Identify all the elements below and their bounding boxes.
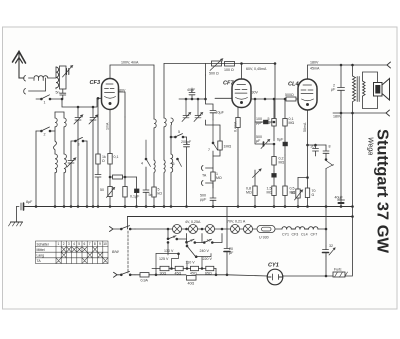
resistor 1M column x220 <box>206 120 223 156</box>
selector taps <box>156 252 211 269</box>
svg-text:3: 3 <box>78 143 80 147</box>
cap on rectifier line x326 <box>323 248 336 255</box>
label CY1 tube <box>268 263 279 269</box>
antenna <box>13 52 26 79</box>
label 0,5M <box>290 187 296 195</box>
output capacitor 2uF <box>338 64 345 113</box>
svg-text:5n: 5n <box>149 193 153 197</box>
antenna plug bottom (earth tap) <box>24 78 46 94</box>
svg-text:Stuttgart 37 GW: Stuttgart 37 GW <box>374 129 391 253</box>
coupling cap 100pF row <box>254 98 274 124</box>
label 1mA rotated <box>106 122 110 130</box>
label 70ohm <box>312 189 316 197</box>
drop x154 from 100V line <box>153 65 155 119</box>
svg-text:5n: 5n <box>56 91 60 95</box>
svg-text:100 Ω: 100 Ω <box>224 68 234 72</box>
heater chain coils CY1 CF3 CL4 CF7 <box>282 227 327 230</box>
drop from B+ at x164 <box>163 64 165 119</box>
svg-text:MΩ: MΩ <box>279 161 285 165</box>
svg-text:Fu/E: Fu/E <box>334 268 342 272</box>
2uF rail down to bus <box>340 113 342 202</box>
label 500uF <box>256 135 262 143</box>
cathode resistor 70ohm column x307 <box>305 188 309 207</box>
label 1M at x213 <box>216 172 222 180</box>
label 50mA rotated <box>303 122 307 132</box>
label 5n <box>56 91 60 95</box>
resistor 100ohm on B+ <box>225 62 235 67</box>
label 2uF <box>331 84 336 92</box>
label 0,1uF <box>130 195 140 199</box>
svg-text:6: 6 <box>173 162 175 166</box>
svg-text:500 Ω: 500 Ω <box>209 72 219 76</box>
trimmer arrow near x255 <box>253 169 262 178</box>
switch 4 and cap column x146 <box>143 140 151 207</box>
wave switch contact 1 <box>36 95 62 100</box>
svg-text:80V: 80V <box>119 89 126 93</box>
svg-text:9: 9 <box>191 239 193 243</box>
CF7 cathode <box>237 108 239 118</box>
svg-text:7: 7 <box>208 148 210 152</box>
title Wega <box>367 137 374 155</box>
antenna coupling coil <box>34 76 48 81</box>
transformer core box <box>60 66 67 89</box>
antenna plug top <box>24 76 33 82</box>
series resistor 40ohm <box>187 276 197 281</box>
dial lamp U930 <box>257 226 275 233</box>
B+ rail down to fuse <box>352 113 354 276</box>
svg-text:40pF: 40pF <box>187 88 196 92</box>
main chassis bus <box>24 206 353 208</box>
lamp 1 <box>173 225 182 234</box>
label 8 switch <box>329 145 331 149</box>
heater bus drop to switch <box>127 217 129 230</box>
cap 0,1uF column x137 <box>135 177 139 207</box>
svg-text:3: 3 <box>68 242 70 246</box>
label U930 <box>259 236 269 240</box>
speaker <box>363 72 390 109</box>
svg-text:B/W: B/W <box>112 250 119 254</box>
label 5k mid <box>158 188 163 196</box>
svg-text:0,9A: 0,9A <box>141 279 149 283</box>
lamp shorting switch 8 <box>167 229 186 240</box>
ground symbol <box>9 207 23 227</box>
label 1k <box>102 155 106 163</box>
label 0,1 <box>114 155 119 159</box>
electrolytic 8uF at bus end <box>17 203 24 210</box>
svg-text:32: 32 <box>329 244 333 248</box>
svg-text:0,4mA: 0,4mA <box>234 121 238 132</box>
cap 40pF and trimmers x192 <box>179 88 206 100</box>
switch 8 contact <box>323 145 334 276</box>
svg-text:6: 6 <box>84 242 86 246</box>
resistor 0,5M column x285 <box>283 155 287 207</box>
label 20uF <box>229 247 234 255</box>
lamp 2 <box>189 225 198 234</box>
speaker terminal top <box>387 62 391 68</box>
IF transformer 2 windings x171 <box>171 118 173 207</box>
trimmer cap column x93 <box>89 106 98 206</box>
column x205 cap 10uF <box>205 75 225 120</box>
label CF7 <box>223 81 234 87</box>
oscillator coil column x55 <box>54 112 58 207</box>
label 180V return <box>333 115 342 119</box>
svg-text:180V: 180V <box>310 61 319 65</box>
tube CF3 <box>102 79 119 110</box>
label 0,9A <box>141 279 149 283</box>
svg-text:40Ω: 40Ω <box>188 281 195 285</box>
label 20 <box>311 145 315 149</box>
variable resistor 500ohm on B+ <box>206 59 223 75</box>
180V return line <box>333 112 386 114</box>
CF3 cathode lead <box>109 110 111 154</box>
table text <box>37 242 107 263</box>
drop x275 <box>274 63 276 118</box>
svg-text:45mA: 45mA <box>310 67 320 71</box>
svg-text:CL4: CL4 <box>301 233 308 237</box>
label 0,8M <box>246 187 252 195</box>
svg-text:180V: 180V <box>333 115 342 119</box>
lamp shorting switch 9 <box>186 234 202 244</box>
TA pickup terminals <box>201 166 213 189</box>
lamp 5 <box>244 225 253 234</box>
6uF cap column x285 at y144 <box>283 141 287 155</box>
speaker terminal bottom <box>386 110 390 116</box>
svg-text:CF7: CF7 <box>223 81 234 87</box>
label 200pF <box>181 140 192 144</box>
svg-text:50mA: 50mA <box>303 122 307 132</box>
trimmer cap column x71 <box>67 141 76 207</box>
label 40ohm <box>188 281 195 285</box>
antenna input transformer winding <box>56 67 59 89</box>
smoothing cap 20uF column x227 <box>224 207 230 275</box>
svg-text:TA: TA <box>202 174 207 178</box>
svg-text:4: 4 <box>73 242 75 246</box>
svg-text:1mA: 1mA <box>106 122 110 130</box>
label TA <box>202 174 207 178</box>
svg-text:Wega: Wega <box>367 137 374 155</box>
svg-text:50: 50 <box>100 188 104 192</box>
cap 5n under transformer <box>60 89 66 99</box>
label 100V,4mA <box>121 61 139 65</box>
svg-text:MΩ: MΩ <box>246 191 252 195</box>
label 5k <box>266 117 271 125</box>
selector labels <box>159 249 212 264</box>
svg-text:30Ω: 30Ω <box>160 271 167 275</box>
trimmer cap column x78 <box>74 106 83 206</box>
electrolytic 40uF on bus <box>338 196 345 207</box>
svg-text:1: 1 <box>44 101 46 105</box>
cathode resistor column x110 <box>107 153 115 207</box>
svg-text:5: 5 <box>178 130 180 134</box>
svg-text:8: 8 <box>173 235 175 239</box>
svg-text:70V, 0,21 A: 70V, 0,21 A <box>227 220 246 224</box>
switch 7 and resistor 1M column x213 <box>210 120 218 207</box>
svg-text:500Ω: 500Ω <box>285 93 294 97</box>
heater supply bus <box>128 216 354 218</box>
voltage selector lever <box>167 242 195 257</box>
output transformer <box>352 64 366 113</box>
label CF3 <box>90 80 101 86</box>
mains fuse 0,9A <box>135 273 156 277</box>
500pF trimmer row y144 <box>255 122 275 149</box>
svg-text:1: 1 <box>58 242 60 246</box>
svg-text:Lang: Lang <box>37 254 45 258</box>
label 500ohm <box>209 72 219 76</box>
label 100ohm <box>224 68 234 72</box>
svg-text:240 V: 240 V <box>200 249 210 253</box>
svg-text:8: 8 <box>94 242 96 246</box>
svg-text:125 V: 125 V <box>159 257 169 261</box>
label 60V 0,45mA <box>246 67 267 71</box>
mains switch top contact <box>120 226 135 230</box>
lamp shorting switch 10 <box>202 234 222 244</box>
CF7 cathode resistor column x238 <box>236 117 240 207</box>
svg-text:8µF: 8µF <box>26 200 33 204</box>
svg-text:4: 4 <box>141 162 143 166</box>
svg-text:200pF: 200pF <box>181 140 192 144</box>
mains terminal bottom <box>114 272 122 277</box>
resistor 5k column x274 <box>272 98 276 141</box>
label 180V 45mA <box>310 61 320 71</box>
mains switch bottom contact <box>120 271 135 275</box>
svg-text:30V: 30V <box>252 91 259 95</box>
label 0,4mA rotated <box>234 121 238 132</box>
IF transformer 1 left winding <box>152 119 156 207</box>
tube CF7 <box>232 79 251 108</box>
label 0,2M <box>279 157 285 165</box>
svg-text:U 930: U 930 <box>259 236 269 240</box>
switch 5 jumper <box>170 134 186 138</box>
CF7 grid wire <box>215 97 232 99</box>
svg-text:130 V: 130 V <box>164 249 174 253</box>
svg-text:6µF: 6µF <box>277 138 284 142</box>
grid resistor column x98 <box>95 97 101 206</box>
switch 6 contact <box>177 158 182 166</box>
label 50 pot <box>100 188 104 192</box>
svg-text:µµF: µµF <box>256 121 263 125</box>
svg-text:5: 5 <box>78 242 80 246</box>
CF3 screen lead 80V <box>119 92 126 117</box>
svg-text:CF3: CF3 <box>292 233 299 237</box>
junction CF7 anode <box>241 63 243 79</box>
lamp 4 <box>231 225 240 234</box>
trimmer pair x186/x198 <box>182 98 203 121</box>
cap 200pF column x186 <box>184 137 190 207</box>
switch link shaft <box>127 231 129 273</box>
resistor 0,1M column x285 <box>283 98 287 141</box>
label 500pF <box>200 194 207 202</box>
svg-text:100V, 4mA: 100V, 4mA <box>121 61 139 65</box>
svg-text:4V, 0,25A: 4V, 0,25A <box>185 220 201 224</box>
svg-text:CL4: CL4 <box>288 82 299 88</box>
tube CL4 <box>298 79 317 110</box>
dropper resistor row <box>152 266 216 270</box>
label 6uF <box>277 138 284 142</box>
svg-text:110 V: 110 V <box>186 260 196 264</box>
label 4V 0,25A <box>185 220 201 224</box>
selector feed down <box>155 269 217 276</box>
label 1M at x220 <box>224 145 232 149</box>
svg-text:Schalter: Schalter <box>37 242 50 246</box>
svg-text:Ω: Ω <box>102 159 105 163</box>
svg-text:kΩ: kΩ <box>266 121 271 125</box>
label CL4 <box>288 82 299 88</box>
hum pot column x298 <box>295 177 309 207</box>
svg-text:10µF: 10µF <box>216 111 225 115</box>
screen feed column x125 <box>123 117 127 207</box>
label 0,1M <box>289 117 295 125</box>
svg-text:MΩ: MΩ <box>289 121 295 125</box>
title Stuttgart 37 GW <box>374 129 391 253</box>
label 100uuF <box>256 117 263 125</box>
wave switch 2 contact and column x36 <box>36 127 55 207</box>
svg-text:40µF: 40µF <box>335 196 344 200</box>
svg-text:Mittel: Mittel <box>37 248 45 252</box>
svg-text:CY1: CY1 <box>268 263 279 269</box>
svg-text:9: 9 <box>99 242 101 246</box>
CF3 anode top lead <box>110 65 154 79</box>
CL4 grid wire with resistor 50k <box>251 97 298 101</box>
coil column x64 <box>55 112 66 207</box>
svg-text:45Ω: 45Ω <box>190 271 197 275</box>
svg-text:CY1: CY1 <box>282 233 289 237</box>
svg-text:50: 50 <box>291 191 295 195</box>
cap 20n on heater line <box>313 144 319 156</box>
label 50kohm <box>285 93 294 97</box>
svg-text:20: 20 <box>311 145 315 149</box>
svg-text:CF7: CF7 <box>311 233 318 237</box>
label 30V <box>252 91 259 95</box>
svg-text:60V, 0,45mA: 60V, 0,45mA <box>246 67 267 71</box>
decoupling resistor horizontal <box>110 175 137 179</box>
switch table <box>36 241 109 264</box>
column x87 <box>86 141 88 207</box>
label Fu/E <box>334 268 342 272</box>
label cap 32 <box>329 244 333 248</box>
svg-text:CF3: CF3 <box>90 80 101 86</box>
label 1,5k <box>267 187 273 195</box>
label 50 pot right <box>291 191 295 195</box>
svg-text:65Ω: 65Ω <box>205 271 212 275</box>
label 40pF <box>187 88 196 92</box>
svg-text:µµF: µµF <box>200 198 207 202</box>
label B/W <box>112 250 119 254</box>
labels heater chain <box>282 233 317 237</box>
svg-text:10: 10 <box>103 242 107 246</box>
tuning capacitor C var <box>63 66 73 78</box>
mains line to CY1 <box>156 274 353 277</box>
line to heater switch <box>307 144 326 146</box>
B+ line to CF7 <box>164 63 275 65</box>
svg-text:0,1µF: 0,1µF <box>130 195 140 199</box>
dropper labels <box>160 271 212 275</box>
svg-text:0,1: 0,1 <box>114 155 119 159</box>
svg-text:MΩ: MΩ <box>267 191 273 195</box>
svg-text:1MΩ: 1MΩ <box>224 145 232 149</box>
label 40uF <box>335 196 344 200</box>
coupling cap to CL4 <box>272 171 276 186</box>
grid feed wire <box>61 98 101 107</box>
svg-text:MΩ: MΩ <box>216 176 222 180</box>
label 70V 0,21A <box>227 220 246 224</box>
switch 3 jumper <box>71 137 87 142</box>
svg-text:2: 2 <box>63 242 65 246</box>
label 5n mid <box>149 193 153 197</box>
label 8uF <box>26 200 33 204</box>
svg-text:7: 7 <box>89 242 91 246</box>
CL4 cathode <box>307 110 309 188</box>
svg-text:kΩ: kΩ <box>158 192 163 196</box>
rectifier tube CY1 <box>267 269 283 285</box>
fuse Fu/E <box>333 272 348 277</box>
wire coil to transformer <box>48 67 56 78</box>
mains terminal top <box>110 227 122 232</box>
CL4 anode top lead <box>308 65 388 79</box>
lamp row wire <box>135 228 282 230</box>
label 80V <box>119 89 126 93</box>
lamp 3 <box>206 225 215 234</box>
svg-text:220 V: 220 V <box>203 257 213 261</box>
resistor 0,8M column x255 <box>253 170 257 207</box>
svg-text:2: 2 <box>44 133 46 137</box>
svg-text:45Ω: 45Ω <box>175 271 182 275</box>
IF transformer 1 right winding <box>164 118 166 207</box>
resistor 0,2M column x274 <box>272 144 276 171</box>
resistor column x274 lower <box>272 186 276 207</box>
svg-text:8: 8 <box>329 145 331 149</box>
switch numbers <box>44 101 211 243</box>
svg-text:Ω: Ω <box>312 193 315 197</box>
svg-text:10: 10 <box>207 239 211 243</box>
